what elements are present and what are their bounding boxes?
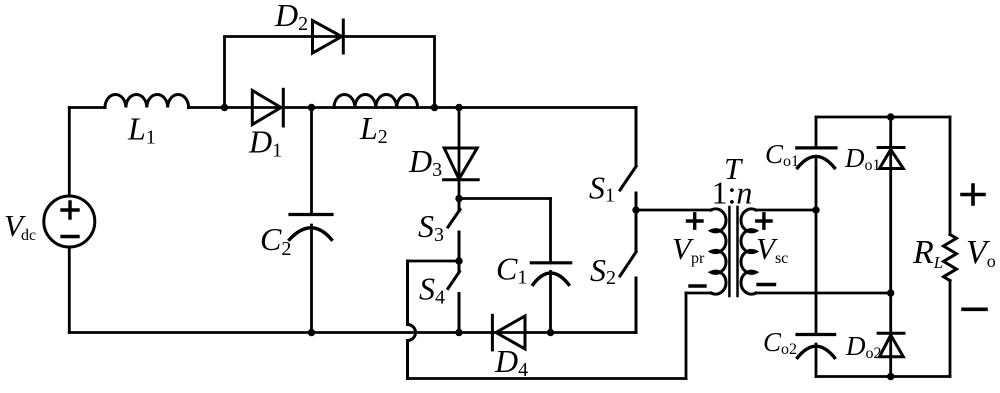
svg-text:S1: S1	[589, 170, 615, 207]
svg-text:Vo: Vo	[966, 234, 996, 271]
wire: return vertical to primary bottom	[685, 293, 688, 379]
resistor RL	[944, 235, 957, 281]
transformer T secondary winding	[741, 209, 756, 294]
svg-text:S4: S4	[419, 271, 445, 309]
svg-text:Vdc: Vdc	[4, 208, 36, 244]
inductor L2	[334, 95, 418, 108]
plus/minus: output	[962, 185, 986, 309]
node: C1 bottom / D4 cathode side	[547, 329, 554, 336]
svg-text:Vsc: Vsc	[756, 231, 788, 267]
wire: output middle rail	[889, 117, 892, 377]
svg-text:D2: D2	[274, 0, 308, 35]
svg-text:Do2: Do2	[845, 331, 882, 362]
wire: output top rail	[816, 116, 950, 119]
transformer T core	[729, 207, 737, 296]
node: D3 bottom / C1 top / S3 top	[455, 195, 462, 202]
svg-text:S3: S3	[418, 208, 444, 246]
wire: D2 top loop	[225, 37, 435, 108]
diode D4	[492, 315, 525, 350]
wire: output right rail	[949, 117, 952, 377]
node: C2 bottom junction	[308, 329, 315, 336]
capacitor C2	[290, 108, 333, 333]
switch S4	[448, 261, 460, 333]
node: D2 loop right junction	[431, 104, 438, 111]
wire: secondary bottom lead	[756, 292, 891, 295]
wire: node to C1 top	[459, 197, 551, 200]
capacitor C1	[531, 199, 570, 333]
voltage source Vdc	[44, 196, 95, 247]
svg-text:Co1: Co1	[765, 139, 799, 170]
switch S1	[620, 108, 636, 211]
diode Do2	[878, 333, 904, 357]
capacitor Co2	[797, 335, 835, 358]
svg-text:Co2: Co2	[763, 327, 797, 358]
svg-text:RL: RL	[912, 234, 943, 272]
diode D3	[444, 108, 479, 199]
svg-text:C2: C2	[260, 221, 291, 260]
svg-text:C1: C1	[496, 251, 527, 289]
wire: primary bottom lead	[686, 292, 711, 295]
diode Do1	[878, 148, 904, 169]
wire: crossover vertical with hop over bottom rail	[408, 261, 416, 379]
node: main rail / D2 loop left	[221, 104, 228, 111]
wire: output left rail	[815, 117, 818, 377]
wire: bottom rail	[69, 331, 636, 334]
svg-text:S2: S2	[590, 252, 616, 289]
wire: S3/S4 junction left to crossover branch	[408, 260, 460, 263]
node: D3 branch top junction	[455, 104, 462, 111]
node: S4 bottom on bottom rail	[455, 329, 462, 336]
svg-text:D1: D1	[248, 124, 282, 162]
node: S3/S4 junction	[455, 257, 462, 264]
node: secondary bottom on middle output rail	[887, 289, 894, 296]
svg-text:Do1: Do1	[844, 143, 881, 174]
transformer T primary winding	[711, 209, 726, 294]
plus/minus: primary	[688, 214, 706, 286]
svg-text:Vpr: Vpr	[672, 231, 705, 267]
capacitor Co1	[797, 148, 836, 168]
wire: lower return rail	[408, 377, 687, 380]
wire: left vertical below source	[68, 247, 71, 333]
node: secondary top on left output rail	[812, 206, 819, 213]
diode D2	[313, 20, 344, 53]
wire: primary top lead	[636, 209, 711, 212]
node: middle rail top	[887, 113, 894, 120]
svg-text:L1: L1	[127, 111, 156, 149]
switch S2	[620, 210, 636, 333]
plus/minus: secondary	[757, 214, 775, 285]
node: S1/S2 junction / primary top	[632, 206, 639, 213]
node: C2 top junction	[308, 104, 315, 111]
inductor L1	[105, 95, 189, 108]
wire: left vertical above source	[68, 108, 71, 197]
node: middle rail bottom	[887, 373, 894, 380]
svg-text:L2: L2	[359, 110, 388, 148]
svg-text:D3: D3	[408, 143, 442, 181]
wire: output bottom rail	[816, 375, 950, 378]
switch S3	[448, 199, 460, 262]
wire: secondary top lead	[756, 209, 816, 212]
wire: main horizontal rail	[69, 106, 636, 109]
diode D1	[252, 89, 283, 126]
svg-text:1:n: 1:n	[712, 175, 753, 211]
